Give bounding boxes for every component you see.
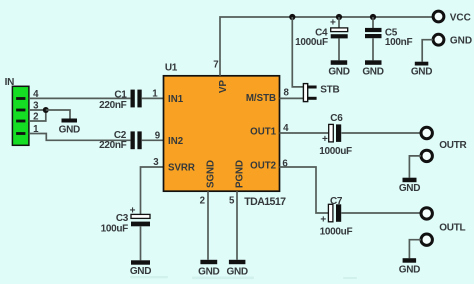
wire IC pin4 OUT1 to C6	[280, 132, 329, 134]
ground symbol OUTR	[399, 178, 420, 194]
capacitor C1	[131, 90, 142, 108]
ground symbol under C5	[362, 60, 383, 77]
svg-text:C7: C7	[330, 196, 343, 207]
svg-text:OUT1: OUT1	[250, 127, 276, 138]
wire IC pin5 PGND to ground	[236, 191, 238, 260]
wire C6 to OUTR terminal	[341, 132, 421, 134]
svg-text:GND: GND	[411, 67, 432, 78]
svg-text:GND: GND	[227, 267, 248, 278]
svg-text:1000uF: 1000uF	[320, 227, 353, 238]
wire IN pin1 to C2	[29, 134, 131, 141]
svg-text:GND: GND	[399, 264, 420, 275]
svg-text:GND: GND	[399, 183, 420, 194]
svg-text:C3: C3	[116, 213, 129, 224]
wire junction to ground	[46, 110, 70, 120]
wire IC pin7 VP to VCC rail	[220, 17, 433, 76]
capacitor C2	[131, 131, 142, 149]
wire C1 to IC pin1	[142, 97, 164, 99]
wire IN pin4 to C1	[29, 97, 131, 99]
svg-text:9: 9	[155, 131, 161, 142]
svg-text:GND: GND	[130, 266, 151, 277]
ground symbol OUTL	[399, 258, 420, 275]
svg-text:8: 8	[284, 88, 290, 99]
wire OUTR ground terminal to ground	[409, 156, 421, 178]
terminal OUTR ground	[421, 150, 432, 161]
svg-text:IN1: IN1	[168, 94, 184, 105]
connector STB header	[303, 84, 316, 102]
wire GND terminal to ground	[422, 40, 433, 62]
ground symbol top right	[411, 62, 432, 78]
wire IN pin3 to junction to IN pin2	[29, 110, 46, 121]
svg-text:IN: IN	[5, 77, 14, 88]
wire C7 to OUTL terminal	[341, 212, 421, 214]
svg-text:1000uF: 1000uF	[319, 146, 352, 157]
wire IC pin2 SGND to ground	[207, 191, 209, 260]
svg-text:5: 5	[229, 196, 235, 207]
svg-text:C1: C1	[114, 89, 127, 100]
IC U1 TDA1517 body	[164, 76, 280, 191]
junction node STB branch	[289, 14, 295, 20]
svg-text:OUTR: OUTR	[439, 140, 467, 151]
terminal OUTL	[421, 208, 432, 219]
svg-text:OUT2: OUT2	[250, 161, 276, 172]
ground symbol near IN	[59, 119, 80, 136]
wire C4 to ground	[338, 38, 340, 60]
svg-text:IN2: IN2	[168, 136, 183, 147]
capacitor C3 electrolytic	[130, 205, 150, 226]
svg-text:220nF: 220nF	[99, 100, 127, 111]
svg-text:VP: VP	[218, 80, 229, 93]
svg-text:GND: GND	[450, 36, 472, 47]
terminal OUTR	[421, 127, 432, 138]
svg-text:100nF: 100nF	[385, 37, 413, 48]
wire C3 to ground	[140, 226, 142, 260]
junction node pins 2-3	[43, 107, 49, 113]
wire OUTL ground terminal to ground	[409, 240, 421, 259]
capacitor C7 electrolytic	[320, 204, 341, 225]
wire IC pin8 to STB header	[280, 97, 304, 99]
svg-text:1000uF: 1000uF	[295, 37, 328, 48]
ground symbol under C3	[130, 260, 151, 277]
wire rail down to STB header	[292, 17, 303, 87]
capacitor C4 electrolytic	[330, 18, 348, 39]
svg-text:TDA1517: TDA1517	[244, 196, 286, 208]
svg-text:PGND: PGND	[235, 160, 246, 188]
ground symbol pin2	[198, 260, 219, 278]
ground symbol under C4	[328, 60, 349, 77]
wire rail to C4	[338, 17, 340, 28]
terminal GND top right	[433, 34, 444, 45]
svg-text:7: 7	[213, 60, 218, 71]
svg-text:+: +	[330, 18, 336, 29]
svg-text:2: 2	[200, 196, 205, 207]
wire rail to C5	[372, 17, 374, 28]
svg-text:SGND: SGND	[206, 160, 217, 188]
capacitor C6 electrolytic	[322, 124, 341, 145]
wire IC pin3 SVRR to C3	[141, 167, 164, 214]
faint watermark remnants at bottom edge	[130, 276, 357, 279]
wire C2 to IC pin9	[142, 139, 164, 141]
svg-text:+: +	[130, 205, 136, 216]
svg-text:M/STB: M/STB	[246, 93, 276, 104]
svg-text:GND: GND	[198, 267, 219, 278]
wire C5 to ground	[372, 38, 374, 60]
junction node C5	[370, 14, 376, 20]
svg-text:OUTL: OUTL	[439, 222, 465, 233]
svg-text:GND: GND	[362, 66, 383, 77]
svg-text:U1: U1	[165, 63, 178, 74]
svg-text:1: 1	[152, 89, 158, 100]
ground symbol pin5	[227, 260, 248, 278]
terminal VCC	[433, 11, 444, 22]
capacitor C5	[365, 28, 382, 38]
svg-text:+: +	[320, 214, 326, 225]
svg-text:3: 3	[153, 157, 159, 168]
svg-text:C6: C6	[330, 113, 343, 124]
svg-text:GND: GND	[59, 125, 80, 136]
wire IC pin6 OUT2 to C7	[280, 167, 329, 213]
svg-text:100uF: 100uF	[101, 224, 129, 235]
svg-text:VCC: VCC	[450, 12, 471, 23]
svg-text:GND: GND	[328, 66, 349, 77]
svg-text:STB: STB	[320, 85, 339, 96]
svg-text:+: +	[322, 134, 328, 145]
svg-text:SVRR: SVRR	[168, 163, 195, 174]
connector J1 IN body	[12, 86, 29, 145]
terminal OUTL ground	[421, 234, 432, 245]
svg-text:220nF: 220nF	[99, 140, 127, 151]
junction node C4	[336, 14, 342, 20]
